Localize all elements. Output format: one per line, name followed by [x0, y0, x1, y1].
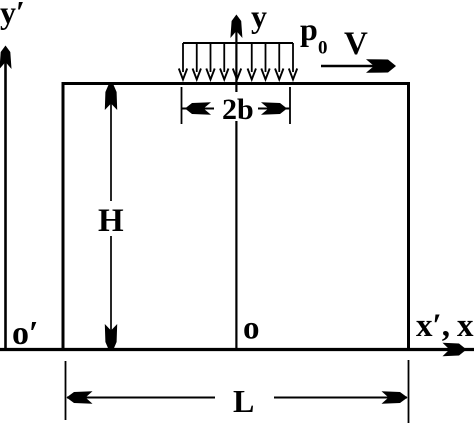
svg-text:2b: 2b [222, 93, 254, 126]
2b dimension right arrow [258, 102, 290, 114]
block rectangle [63, 84, 409, 351]
svg-text:L: L [233, 383, 254, 419]
2b dimension right extension line [289, 87, 291, 124]
distributed load p0 [183, 43, 293, 72]
2b dimension left extension line [181, 87, 183, 124]
svg-text:y: y [251, 0, 267, 34]
svg-text:V: V [344, 26, 368, 62]
y' axis [0, 46, 12, 351]
L dimension line with arrows [67, 391, 408, 403]
svg-text:x′,: x′, [416, 308, 450, 344]
svg-text:o′: o′ [12, 315, 39, 352]
svg-text:0: 0 [318, 38, 328, 59]
L dimension right extension line [408, 360, 410, 423]
svg-text:o: o [243, 311, 260, 347]
svg-text:p: p [300, 11, 318, 47]
svg-text:x: x [457, 308, 474, 344]
svg-text:H: H [98, 203, 124, 239]
velocity V arrow [321, 59, 396, 73]
x axis baseline [0, 343, 474, 356]
H dimension line [105, 85, 117, 349]
svg-text:y′: y′ [0, 0, 25, 30]
2b dimension left arrow [182, 102, 214, 114]
y axis center line [230, 15, 242, 349]
L dimension left extension line [65, 361, 67, 420]
